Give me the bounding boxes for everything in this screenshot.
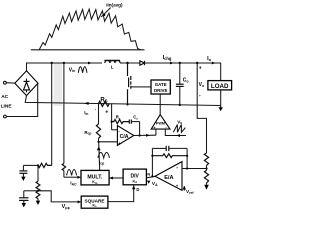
svg-text:Ichg: Ichg xyxy=(163,55,172,61)
svg-text:+: + xyxy=(199,66,202,72)
svg-text:LINE: LINE xyxy=(1,103,13,109)
resistor Rs current sense xyxy=(98,101,109,106)
VFF network: resistor Rff1 xyxy=(38,163,52,167)
capacitor Cz feedback xyxy=(128,120,130,124)
wire VFF feed from Vin rail xyxy=(51,63,53,165)
resistor Rcp xyxy=(98,104,100,124)
resistor Rff2 vertical xyxy=(37,165,39,181)
svg-text:VA: VA xyxy=(152,181,158,187)
svg-text:DRIVE: DRIVE xyxy=(154,88,167,93)
op-amp C/A current amplifier xyxy=(117,126,133,146)
divider box DIV Kd xyxy=(123,169,146,185)
svg-text:Vref: Vref xyxy=(186,189,194,195)
svg-text:E/A: E/A xyxy=(164,175,173,181)
square box SQUARE Ks xyxy=(81,196,108,208)
svg-text:L: L xyxy=(111,65,114,70)
svg-text:Iin: Iin xyxy=(84,110,88,116)
wire AC2 to bridge right vertex xyxy=(6,84,37,117)
wire E/A inverting input to divider tap xyxy=(182,168,207,170)
resistor Rz feedback xyxy=(112,120,129,124)
IAC rectified-sine icon xyxy=(67,170,77,176)
svg-text:Kd: Kd xyxy=(133,179,138,184)
svg-text:Vs: Vs xyxy=(177,119,182,125)
wire PWM minus input stub xyxy=(165,129,186,135)
E/A feedback capacitor Cvf xyxy=(152,147,166,149)
svg-text:AC: AC xyxy=(1,94,8,100)
svg-text:RS: RS xyxy=(100,98,107,104)
resistor Rd2 output divider lower xyxy=(204,170,208,183)
gate drive box U2 xyxy=(151,80,170,94)
bottom return rail xyxy=(25,96,221,106)
wire gate drive to MOSFET gate xyxy=(136,86,152,88)
svg-text:D: D xyxy=(136,187,139,192)
svg-text:Km: Km xyxy=(92,180,98,185)
wire C/A output to PWM xyxy=(134,134,156,136)
svg-text:-: - xyxy=(176,165,178,171)
svg-text:N: N xyxy=(147,172,150,177)
node Vin junction IAC feed xyxy=(63,62,65,64)
svg-text:Iin(avg): Iin(avg) xyxy=(106,3,123,8)
arrow Ichg xyxy=(170,62,174,65)
svg-text:Vin: Vin xyxy=(69,67,76,73)
svg-text:Vo: Vo xyxy=(199,82,205,88)
op-amp E/A voltage error amplifier xyxy=(155,162,182,191)
AC terminal 2 xyxy=(4,115,7,118)
diode D1 boost diode xyxy=(140,61,144,65)
svg-text:Rz: Rz xyxy=(116,115,121,121)
resistor Rd1 output divider upper xyxy=(204,153,208,166)
top rail left segment xyxy=(27,63,103,71)
wire Icp from multiplier up to C/A input xyxy=(99,142,100,171)
svg-text:Icp: Icp xyxy=(99,160,104,166)
multiplier box MULT Km xyxy=(81,170,109,185)
wire top rail right segment xyxy=(145,62,222,64)
IAC branch resistor xyxy=(62,164,65,171)
arrow current into inductor xyxy=(88,62,92,65)
resistor Rff3 to ground xyxy=(36,191,40,199)
sawtooth icon Vs xyxy=(173,125,185,133)
pointer line to waveform xyxy=(101,8,110,17)
Vin rectified-sine icon xyxy=(78,67,87,73)
wire VA from E/A output into DIV xyxy=(146,176,155,177)
svg-text:-: - xyxy=(199,93,201,99)
capacitor Cff2 xyxy=(24,190,38,192)
wire VFF node to SQUARE xyxy=(38,191,79,202)
Icp rectified-sine icon xyxy=(98,152,110,158)
load box xyxy=(220,63,222,81)
capacitor Cff1 xyxy=(22,165,24,170)
svg-text:GATE: GATE xyxy=(155,82,167,87)
ground arrow Rff3 xyxy=(36,201,40,205)
wire PWM plus input stub xyxy=(155,129,157,135)
svg-text:Co: Co xyxy=(183,78,190,84)
arrow Io xyxy=(212,62,216,65)
arrow Icp up xyxy=(97,146,101,150)
svg-text:MULT.: MULT. xyxy=(87,174,102,180)
E/A feedback resistor Rvf xyxy=(152,154,187,158)
PWM comparator U3 xyxy=(151,115,170,130)
ground arrow load return xyxy=(220,106,222,108)
wire C/A noninverting input xyxy=(99,141,118,143)
feedback left vertical xyxy=(151,148,153,176)
svg-text:C/A: C/A xyxy=(120,134,129,140)
arrow Iin direction xyxy=(84,102,88,105)
svg-text:+: + xyxy=(105,110,108,116)
waveform baseline xyxy=(31,49,145,51)
svg-text:SQUARE: SQUARE xyxy=(84,198,104,203)
svg-text:Io: Io xyxy=(207,56,212,62)
wire tap Rs right to current amp input xyxy=(111,104,113,130)
node Vin junction VFF feed xyxy=(51,62,53,64)
wire PWM output to gate drive xyxy=(159,94,161,115)
arrow into PWM minus xyxy=(176,134,180,137)
ground arrow divider xyxy=(204,185,209,190)
ground arrow Cff1 xyxy=(21,177,25,181)
svg-text:Rcp: Rcp xyxy=(84,130,91,136)
arrow VA probe xyxy=(147,181,150,184)
feedback right vertical xyxy=(186,148,188,168)
scan artifact grey band xyxy=(54,64,62,107)
node Vo sense line xyxy=(196,62,198,64)
wire xyxy=(120,62,140,64)
wire DIV output to MULT xyxy=(109,177,123,179)
wire IAC feed from Vin rail xyxy=(63,63,65,164)
wire D input from SQUARE xyxy=(108,186,134,202)
transistor Q1 boost switch xyxy=(127,63,129,76)
node MOSFET drain tap xyxy=(126,62,128,64)
wire Vref into E/A noninverting input xyxy=(183,186,185,190)
svg-text:VFF: VFF xyxy=(62,204,71,210)
wire IAC into MULT xyxy=(64,176,79,178)
wire C/A inverting input xyxy=(112,129,118,131)
capacitor Co xyxy=(179,62,181,64)
waveform Iin(avg) ripple arch xyxy=(39,9,141,50)
svg-text:LOAD: LOAD xyxy=(211,83,229,90)
ground arrow Cff2 xyxy=(22,203,26,207)
wire feedback down to C/A output xyxy=(139,122,141,136)
bridge rectifier BR1 xyxy=(15,71,38,96)
inductor L1 xyxy=(104,59,120,61)
AC terminal 1 xyxy=(4,81,7,84)
svg-text:Ks: Ks xyxy=(93,204,98,209)
svg-text:Cz: Cz xyxy=(133,115,138,121)
svg-text:PWM: PWM xyxy=(156,122,165,126)
